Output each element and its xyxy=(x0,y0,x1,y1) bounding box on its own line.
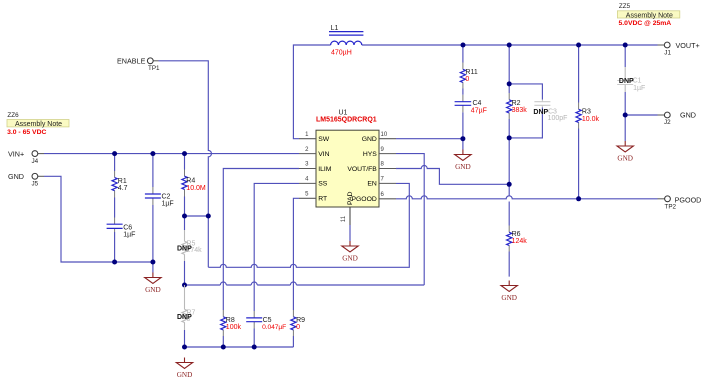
wire ENABLE net: TP1 right then down (break at VIN rail hop) xyxy=(159,61,212,267)
svg-text:C1: C1 xyxy=(633,78,642,85)
capacitor C3 (DNP, gray) xyxy=(534,100,550,108)
wire U1 pin10 GND to C4 branch xyxy=(396,138,463,140)
wire VOUT top rail: L1 to J1 xyxy=(362,44,658,46)
junction dot C1/J2 GND node xyxy=(623,113,628,118)
ground symbol under U1 pad xyxy=(342,241,358,262)
wire VOUT/FB line: U1 pin8 to feedback node (hop over HYS vertical) xyxy=(396,166,509,185)
junction dots R2/C3 nodes and FB node xyxy=(507,81,512,186)
wire DNP C1 branch and J2 GND xyxy=(625,45,657,141)
ground symbol under R6 xyxy=(501,281,517,302)
connector J4 VIN+ xyxy=(32,151,45,165)
svg-text:100pF: 100pF xyxy=(548,115,568,122)
svg-text:R2: R2 xyxy=(512,100,521,107)
svg-text:EN: EN xyxy=(367,181,377,188)
label R3 value xyxy=(582,109,600,124)
svg-text:GND: GND xyxy=(145,286,161,294)
wire U1 pin11 PAD to GND xyxy=(349,225,351,241)
resistor R4 xyxy=(182,170,187,197)
junction dots bottom GND rail xyxy=(182,345,257,350)
svg-text:0: 0 xyxy=(465,76,469,83)
svg-text:0.047µF: 0.047µF xyxy=(262,324,286,331)
label C3 DNP xyxy=(533,109,567,123)
wire PGOOD line: U1 pin6 to TP2 with hops xyxy=(396,196,658,199)
U1 pin names left xyxy=(318,136,332,203)
svg-text:PGOOD: PGOOD xyxy=(351,196,376,203)
label R5 DNP xyxy=(177,241,202,255)
junction dot HYS divider node xyxy=(182,283,187,288)
wire divider vertical R4/R5/R7 column xyxy=(184,154,186,347)
svg-text:470µH: 470µH xyxy=(331,50,352,57)
label C4 value xyxy=(471,100,487,115)
wire EN line: ENABLE vertical right to U1 pin7 with hops xyxy=(208,183,409,267)
svg-text:DNP: DNP xyxy=(533,109,548,116)
label R8 value xyxy=(226,317,242,331)
svg-text:R4: R4 xyxy=(186,178,195,185)
junction dots VIN rail xyxy=(112,151,187,156)
svg-text:LM5165QDRCRQ1: LM5165QDRCRQ1 xyxy=(316,116,377,123)
assembly note ZZ5 xyxy=(617,3,679,27)
svg-text:10: 10 xyxy=(381,132,388,138)
junction dots top rail xyxy=(461,43,628,48)
label R9 value xyxy=(296,317,305,331)
svg-text:GND: GND xyxy=(680,111,696,120)
U1 right pin stubs (pins 10-6) xyxy=(379,139,396,199)
svg-text:VOUT/FB: VOUT/FB xyxy=(347,166,377,173)
resistor R1 xyxy=(112,171,117,198)
svg-text:VIN+: VIN+ xyxy=(8,149,24,158)
capacitor C6 xyxy=(107,218,123,233)
label R11 value xyxy=(465,69,477,83)
label C1 DNP xyxy=(619,78,645,93)
wire C2 branch vertical xyxy=(152,154,154,273)
net label GND (J2) xyxy=(680,111,696,120)
svg-text:GND: GND xyxy=(8,172,24,181)
U1 PAD pin name (rotated) xyxy=(347,191,354,205)
label C5 value xyxy=(262,317,286,331)
svg-text:11: 11 xyxy=(341,215,347,222)
net label ENABLE xyxy=(117,57,146,66)
svg-text:VIN: VIN xyxy=(318,151,329,158)
label L1 value xyxy=(331,25,352,57)
capacitor C5 xyxy=(246,311,262,329)
svg-text:0: 0 xyxy=(296,324,300,331)
resistor R7 (DNP, gray) xyxy=(182,285,187,330)
svg-text:SW: SW xyxy=(318,136,330,143)
U1 pin names right xyxy=(347,136,377,203)
svg-text:ZZ5: ZZ5 xyxy=(619,3,631,10)
svg-text:10.0k: 10.0k xyxy=(582,116,600,123)
svg-text:J4: J4 xyxy=(32,158,39,165)
svg-text:ZZ6: ZZ6 xyxy=(7,112,19,119)
svg-text:GND: GND xyxy=(342,254,358,262)
svg-text:GND: GND xyxy=(501,294,517,302)
svg-text:L1: L1 xyxy=(331,25,339,32)
U1 reference label xyxy=(339,110,348,117)
net label GND (J5) xyxy=(8,172,24,181)
connector J5 GND xyxy=(32,173,45,187)
svg-text:R8: R8 xyxy=(226,317,235,324)
label R1 value xyxy=(118,178,128,192)
svg-text:DNP: DNP xyxy=(177,245,192,252)
ground symbol bottom left divider xyxy=(176,358,192,379)
resistor R6 xyxy=(507,226,512,252)
connector J2 GND xyxy=(658,112,672,126)
svg-text:5.0VDC @ 25mA: 5.0VDC @ 25mA xyxy=(619,20,672,27)
svg-text:3.0 - 65 VDC: 3.0 - 65 VDC xyxy=(7,129,46,136)
net label VIN+ xyxy=(8,149,24,158)
wire J5 GND to bottom rail under C6/C2 xyxy=(44,176,153,262)
svg-text:GND: GND xyxy=(455,163,471,171)
svg-text:R3: R3 xyxy=(582,109,591,116)
svg-text:J1: J1 xyxy=(664,50,671,57)
svg-text:1µF: 1µF xyxy=(633,85,645,92)
label R4 value xyxy=(186,178,206,192)
svg-text:1µF: 1µF xyxy=(162,201,174,208)
net label PGOOD xyxy=(675,196,702,205)
resistor R2 xyxy=(507,93,512,119)
net label VOUT+ xyxy=(676,41,700,50)
svg-text:GND: GND xyxy=(362,136,377,143)
capacitor C1 (DNP, gray) xyxy=(617,67,633,92)
label R7 DNP xyxy=(177,309,196,323)
label C6 value xyxy=(123,224,135,238)
U1 pin number 11 (rotated) xyxy=(341,215,347,222)
svg-text:4.7: 4.7 xyxy=(118,185,128,192)
svg-text:PGOOD: PGOOD xyxy=(675,196,702,205)
label R2 value xyxy=(512,100,528,114)
svg-text:SS: SS xyxy=(318,181,328,188)
U1 part number label xyxy=(316,116,377,123)
svg-text:47µF: 47µF xyxy=(471,107,487,114)
junction dot R3/PGOOD node xyxy=(576,196,581,201)
svg-text:R9: R9 xyxy=(296,317,305,324)
ground symbol under C4 / pin10 xyxy=(455,150,471,171)
wire SW net: U1 pin1 up to inductor xyxy=(293,45,330,139)
wire SS net: U1 pin4 left and down to C5 xyxy=(254,183,299,347)
svg-text:GND: GND xyxy=(177,371,193,379)
svg-text:RT: RT xyxy=(318,196,327,203)
svg-text:Assembly Note: Assembly Note xyxy=(626,12,673,19)
op-amp U1 body LM5165QDRCRQ1 xyxy=(316,130,379,207)
svg-text:PAD: PAD xyxy=(347,191,354,205)
svg-text:J2: J2 xyxy=(664,119,671,126)
wire DNP C3 parallel branch xyxy=(509,84,542,138)
test point TP2 PGOOD xyxy=(658,196,677,211)
resistor R9 xyxy=(291,310,296,336)
wire bottom GND rail xyxy=(185,346,294,348)
wire HYS line: U1 pin9 down to DNP divider node with hops xyxy=(185,154,425,285)
label R6 value xyxy=(512,231,528,245)
U1 left pin stubs (pins 1-5) xyxy=(299,139,316,199)
svg-text:DNP: DNP xyxy=(177,314,192,321)
svg-text:HYS: HYS xyxy=(363,151,377,158)
wire R4 bottom to ENABLE vertical xyxy=(185,215,209,217)
svg-text:J5: J5 xyxy=(32,181,39,188)
test point TP1 ENABLE xyxy=(147,58,160,72)
svg-text:TP1: TP1 xyxy=(148,65,160,72)
wire hops on HYS line xyxy=(220,282,296,285)
capacitor C2 xyxy=(145,187,161,205)
ground symbol under input caps xyxy=(145,273,161,294)
junction dots input GND rail xyxy=(112,260,155,265)
svg-text:10.0M: 10.0M xyxy=(186,185,206,192)
svg-text:100k: 100k xyxy=(226,324,242,331)
svg-text:C5: C5 xyxy=(263,317,272,324)
svg-text:R6: R6 xyxy=(512,231,521,238)
wire ILIM net: U1 pin3 left and down to R8 xyxy=(223,169,299,348)
resistor R11 xyxy=(460,63,465,89)
U1 pin numbers right xyxy=(381,132,388,198)
label C2 value xyxy=(162,194,174,208)
svg-text:TP2: TP2 xyxy=(665,204,677,211)
resistor R3 xyxy=(576,103,581,129)
svg-text:GND: GND xyxy=(617,154,633,162)
svg-text:VOUT+: VOUT+ xyxy=(676,41,700,50)
U1 pad pin stub (pin 11) xyxy=(349,207,351,225)
svg-text:ENABLE: ENABLE xyxy=(117,57,146,66)
wire R2/R6 feedback divider vertical (breaks at PGOOD hop) xyxy=(508,45,510,277)
capacitor C4 xyxy=(455,95,472,113)
resistor R5 (DNP, gray) xyxy=(182,230,187,261)
assembly note ZZ6 xyxy=(7,112,69,136)
resistor R8 xyxy=(221,310,226,336)
svg-text:ILIM: ILIM xyxy=(318,166,332,173)
svg-text:Assembly Note: Assembly Note xyxy=(15,121,62,128)
wire R1 branch vertical xyxy=(114,154,116,262)
wire R11/C4 branch vertical xyxy=(462,45,464,150)
wire R3 branch: top rail to PGOOD line xyxy=(578,45,580,199)
svg-text:124k: 124k xyxy=(512,238,528,245)
svg-text:383k: 383k xyxy=(512,107,528,114)
connector J1 VOUT+ xyxy=(658,42,672,56)
wire VIN+ rail: J4 to U1 pin2 (hop over ENABLE vertical) xyxy=(44,153,299,155)
inductor L1 xyxy=(329,32,363,45)
svg-text:C4: C4 xyxy=(473,100,482,107)
ground symbol under J2 node xyxy=(617,141,633,162)
svg-text:1µF: 1µF xyxy=(123,231,135,238)
U1 pin numbers left xyxy=(305,132,309,198)
wire RT net: U1 pin5 left and down to R9 xyxy=(293,198,299,347)
junction dot pin10 GND node xyxy=(460,136,465,141)
junction dots R4 bottom node xyxy=(182,214,211,219)
svg-text:DNP: DNP xyxy=(619,78,634,85)
